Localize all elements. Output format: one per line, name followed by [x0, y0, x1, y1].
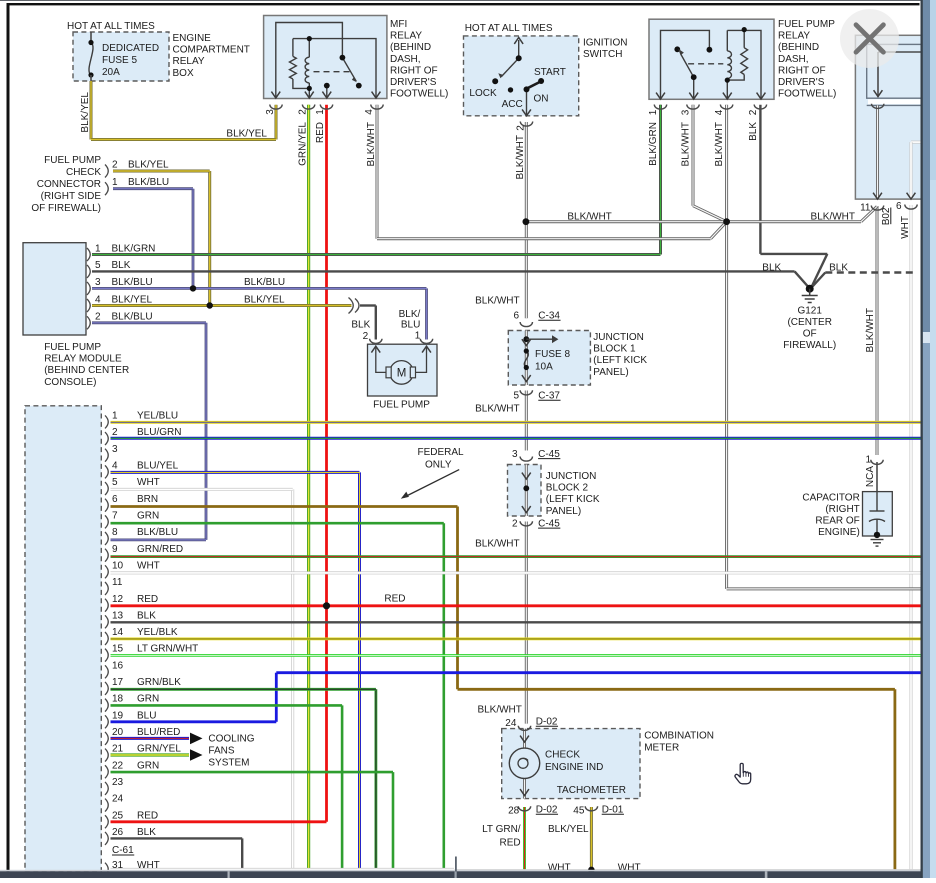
svg-text:BLK: BLK [762, 262, 781, 273]
svg-text:BLK/WHT: BLK/WHT [865, 308, 876, 352]
svg-text:G121: G121 [797, 306, 822, 317]
svg-text:BLK/GRN: BLK/GRN [648, 122, 659, 166]
svg-text:45: 45 [573, 806, 585, 817]
svg-text:BLK/BLU: BLK/BLU [137, 527, 178, 538]
svg-text:2: 2 [516, 125, 527, 131]
svg-text:FEDERAL: FEDERAL [418, 447, 465, 458]
svg-text:BLK/YEL: BLK/YEL [128, 160, 169, 171]
svg-text:10A: 10A [535, 362, 553, 373]
svg-text:DASH,: DASH, [390, 54, 421, 65]
svg-text:4: 4 [112, 460, 118, 471]
svg-text:CONSOLE): CONSOLE) [44, 377, 96, 388]
svg-text:RED: RED [137, 810, 158, 821]
svg-text:RELAY: RELAY [390, 31, 422, 42]
svg-text:BLK: BLK [112, 260, 131, 271]
svg-text:5: 5 [95, 260, 101, 271]
svg-text:18: 18 [112, 694, 124, 705]
svg-text:(RIGHT: (RIGHT [825, 504, 859, 515]
svg-text:BLK/YEL: BLK/YEL [548, 824, 589, 835]
svg-text:IGNITION: IGNITION [583, 38, 627, 49]
svg-text:RED: RED [315, 122, 326, 143]
svg-text:4: 4 [95, 294, 101, 305]
svg-text:FOOTWELL): FOOTWELL) [778, 89, 836, 100]
svg-text:ONLY: ONLY [425, 460, 452, 471]
svg-text:OF FIREWALL): OF FIREWALL) [31, 203, 101, 214]
svg-text:2: 2 [112, 427, 118, 438]
svg-text:M: M [397, 368, 407, 380]
svg-text:2: 2 [112, 160, 118, 171]
svg-text:METER: METER [644, 742, 679, 753]
svg-text:COMBINATION: COMBINATION [644, 731, 714, 742]
svg-text:COOLING: COOLING [208, 734, 254, 745]
svg-text:2: 2 [363, 331, 369, 342]
svg-text:4: 4 [364, 109, 375, 115]
svg-text:DEDICATED: DEDICATED [102, 43, 159, 54]
svg-text:WHT: WHT [137, 477, 160, 488]
svg-text:(BEHIND: (BEHIND [778, 42, 819, 53]
svg-text:5: 5 [513, 391, 519, 402]
svg-text:BLK/YEL: BLK/YEL [244, 294, 285, 305]
svg-text:BLK/WHT: BLK/WHT [477, 705, 521, 716]
svg-text:HOT AT ALL TIMES: HOT AT ALL TIMES [67, 21, 155, 32]
svg-text:FUEL PUMP: FUEL PUMP [373, 400, 430, 411]
svg-text:RELAY: RELAY [778, 31, 810, 42]
svg-text:BLK: BLK [829, 262, 848, 273]
svg-text:20: 20 [112, 727, 124, 738]
svg-text:YEL/BLK: YEL/BLK [137, 627, 178, 638]
svg-text:19: 19 [112, 710, 124, 721]
svg-text:SYSTEM: SYSTEM [208, 757, 249, 768]
svg-text:11: 11 [112, 577, 123, 588]
svg-text:8: 8 [112, 527, 118, 538]
svg-text:BLK/BLU: BLK/BLU [112, 312, 153, 323]
svg-text:3: 3 [681, 109, 692, 115]
svg-text:BLK/YEL: BLK/YEL [226, 129, 267, 140]
svg-text:CHECK: CHECK [545, 750, 580, 761]
svg-text:BLU/GRN: BLU/GRN [137, 427, 181, 438]
svg-text:BLOCK 1: BLOCK 1 [593, 344, 636, 355]
svg-text:ENGINE): ENGINE) [818, 527, 860, 538]
svg-text:FOOTWELL): FOOTWELL) [390, 89, 448, 100]
svg-text:TACHOMETER: TACHOMETER [557, 785, 626, 796]
svg-text:GRN: GRN [137, 760, 159, 771]
svg-text:26: 26 [112, 827, 124, 838]
svg-text:15: 15 [112, 644, 124, 655]
svg-text:RELAY MODULE: RELAY MODULE [44, 354, 122, 365]
svg-text:ACC: ACC [502, 99, 523, 110]
svg-text:FUEL PUMP: FUEL PUMP [44, 155, 101, 166]
svg-text:RED: RED [137, 594, 158, 605]
svg-text:COMPARTMENT: COMPARTMENT [173, 45, 250, 56]
svg-text:BLK/WHT: BLK/WHT [475, 404, 519, 415]
svg-text:3: 3 [512, 449, 518, 460]
svg-text:WHT: WHT [137, 560, 160, 571]
svg-text:FUEL PUMP: FUEL PUMP [44, 342, 101, 353]
svg-text:1: 1 [112, 411, 118, 422]
svg-text:1: 1 [865, 455, 871, 466]
svg-text:PANEL): PANEL) [546, 506, 581, 517]
svg-text:(LEFT KICK: (LEFT KICK [546, 494, 600, 505]
svg-text:BLK/: BLK/ [399, 309, 421, 320]
svg-text:5: 5 [112, 477, 118, 488]
svg-text:BLK/WHT: BLK/WHT [714, 122, 725, 166]
svg-text:CAPACITOR: CAPACITOR [802, 493, 859, 504]
svg-text:DRIVER'S: DRIVER'S [390, 77, 437, 88]
svg-text:BLU/YEL: BLU/YEL [137, 460, 179, 471]
svg-text:GRN/BLK: GRN/BLK [137, 677, 181, 688]
svg-text:RIGHT OF: RIGHT OF [390, 65, 438, 76]
svg-text:BLK/WHT: BLK/WHT [515, 135, 526, 179]
svg-text:BRN: BRN [137, 494, 158, 505]
svg-text:LOCK: LOCK [469, 88, 497, 99]
svg-text:GRN/YEL: GRN/YEL [137, 744, 181, 755]
svg-text:2: 2 [298, 109, 309, 115]
svg-text:GRN: GRN [137, 694, 159, 705]
svg-text:GRN/RED: GRN/RED [137, 544, 183, 555]
svg-text:13: 13 [112, 610, 124, 621]
svg-text:6: 6 [513, 311, 519, 322]
svg-text:BLK/WHT: BLK/WHT [811, 212, 855, 223]
svg-text:FIREWALL): FIREWALL) [783, 340, 836, 351]
svg-text:FUSE 5: FUSE 5 [102, 55, 137, 66]
svg-text:BLOCK 2: BLOCK 2 [546, 483, 589, 494]
svg-text:BLK: BLK [748, 122, 759, 141]
svg-text:25: 25 [112, 810, 124, 821]
svg-text:RELAY: RELAY [173, 56, 205, 67]
svg-text:3: 3 [95, 277, 101, 288]
svg-text:BLK/WHT: BLK/WHT [681, 122, 692, 166]
svg-text:(BEHIND CENTER: (BEHIND CENTER [44, 365, 129, 376]
svg-text:BLK/BLU: BLK/BLU [112, 277, 153, 288]
svg-text:FUEL PUMP: FUEL PUMP [778, 19, 835, 30]
svg-text:FUSE 8: FUSE 8 [535, 349, 570, 360]
svg-text:ON: ON [534, 94, 549, 105]
svg-text:14: 14 [112, 627, 124, 638]
svg-text:20A: 20A [102, 67, 120, 78]
svg-text:BLK: BLK [137, 610, 156, 621]
svg-text:(RIGHT SIDE: (RIGHT SIDE [41, 191, 102, 202]
svg-text:RED: RED [499, 838, 520, 849]
svg-text:2: 2 [95, 312, 101, 323]
svg-text:NCA: NCA [865, 466, 876, 487]
svg-text:6: 6 [896, 201, 902, 212]
svg-text:7: 7 [112, 510, 118, 521]
svg-text:RED: RED [384, 594, 405, 605]
svg-text:12: 12 [112, 594, 124, 605]
svg-text:YEL/BLU: YEL/BLU [137, 411, 178, 422]
svg-text:BLK/BLU: BLK/BLU [244, 277, 285, 288]
svg-text:28: 28 [508, 806, 520, 817]
svg-text:DASH,: DASH, [778, 54, 809, 65]
svg-text:OF: OF [803, 329, 817, 340]
svg-text:4: 4 [714, 109, 725, 115]
svg-text:BLK: BLK [137, 827, 156, 838]
svg-text:16: 16 [112, 660, 124, 671]
svg-text:BLK/WHT: BLK/WHT [475, 296, 519, 307]
svg-text:(BEHIND: (BEHIND [390, 42, 431, 53]
svg-text:1: 1 [95, 243, 101, 254]
svg-text:DRIVER'S: DRIVER'S [778, 77, 825, 88]
svg-text:BLK/GRN: BLK/GRN [112, 243, 156, 254]
svg-text:LT GRN/: LT GRN/ [482, 824, 521, 835]
svg-text:WHT: WHT [137, 860, 160, 871]
svg-text:BLK: BLK [351, 320, 370, 331]
svg-text:21: 21 [112, 744, 124, 755]
svg-text:(CENTER: (CENTER [787, 317, 831, 328]
svg-text:(LEFT KICK: (LEFT KICK [593, 355, 647, 366]
svg-text:6: 6 [112, 494, 118, 505]
svg-text:JUNCTION: JUNCTION [546, 471, 597, 482]
svg-text:31: 31 [112, 860, 124, 871]
svg-text:11: 11 [860, 203, 871, 214]
svg-text:2: 2 [748, 109, 759, 115]
svg-text:17: 17 [112, 677, 124, 688]
svg-text:CONNECTOR: CONNECTOR [37, 179, 101, 190]
svg-text:WHT: WHT [900, 216, 911, 239]
svg-text:RIGHT OF: RIGHT OF [778, 65, 826, 76]
svg-text:22: 22 [112, 760, 124, 771]
svg-text:START: START [534, 67, 566, 78]
svg-text:BLK/WHT: BLK/WHT [475, 539, 519, 550]
svg-text:2: 2 [512, 518, 518, 529]
svg-text:1: 1 [648, 109, 659, 115]
svg-text:SWITCH: SWITCH [583, 49, 622, 60]
svg-text:GRN/YEL: GRN/YEL [298, 122, 309, 166]
svg-text:FANS: FANS [208, 745, 234, 756]
svg-text:PANEL): PANEL) [593, 367, 628, 378]
svg-text:BLK/WHT: BLK/WHT [567, 212, 611, 223]
svg-text:REAR OF: REAR OF [815, 516, 859, 527]
svg-text:ENGINE: ENGINE [173, 33, 212, 44]
svg-text:BLU: BLU [401, 320, 420, 331]
svg-text:24: 24 [112, 794, 124, 805]
svg-text:9: 9 [112, 544, 118, 555]
svg-text:1: 1 [415, 331, 421, 342]
svg-text:1: 1 [112, 177, 118, 188]
svg-text:LT GRN/WHT: LT GRN/WHT [137, 644, 198, 655]
svg-text:23: 23 [112, 777, 124, 788]
svg-text:BOX: BOX [173, 68, 194, 79]
svg-text:BLK/WHT: BLK/WHT [366, 122, 377, 166]
svg-text:24: 24 [505, 718, 517, 729]
svg-text:CHECK: CHECK [66, 167, 101, 178]
svg-text:3: 3 [112, 444, 118, 455]
svg-text:GRN: GRN [137, 510, 159, 521]
svg-text:JUNCTION: JUNCTION [593, 332, 644, 343]
svg-text:BLK/YEL: BLK/YEL [80, 92, 91, 133]
svg-text:MFI: MFI [390, 19, 407, 30]
svg-text:3: 3 [265, 109, 276, 115]
svg-text:BLK/BLU: BLK/BLU [128, 177, 169, 188]
svg-text:BLK/YEL: BLK/YEL [112, 294, 153, 305]
svg-text:10: 10 [112, 560, 124, 571]
svg-text:BLU: BLU [137, 710, 156, 721]
svg-text:1: 1 [315, 109, 326, 115]
svg-text:BLU/RED: BLU/RED [137, 727, 180, 738]
svg-text:HOT AT ALL TIMES: HOT AT ALL TIMES [465, 23, 553, 34]
svg-text:ENGINE IND: ENGINE IND [545, 762, 603, 773]
